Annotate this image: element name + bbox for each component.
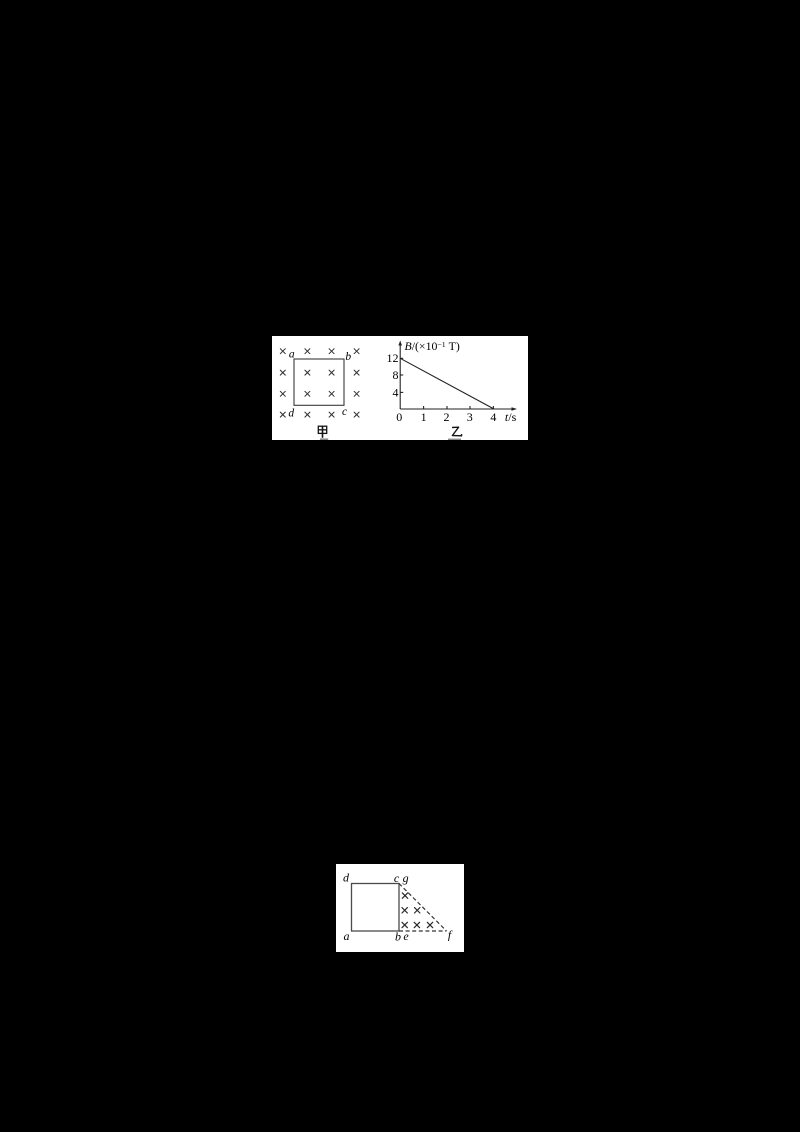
svg-text:b: b <box>395 929 401 943</box>
square loop abcd <box>352 884 400 932</box>
field crosses in triangle <box>402 893 433 928</box>
svg-text:0: 0 <box>396 410 402 424</box>
cut-off mark under 乙 <box>448 438 461 440</box>
x tick 3 <box>469 406 471 409</box>
caption 甲 (drawn) <box>318 426 326 438</box>
caption 乙 (drawn) <box>452 427 462 436</box>
svg-text:4: 4 <box>490 410 496 424</box>
svg-text:c: c <box>342 406 347 418</box>
svg-text:c: c <box>394 871 400 885</box>
x tick 2 <box>446 406 448 409</box>
svg-text:t/s: t/s <box>505 410 517 424</box>
y tick 12 <box>400 357 403 359</box>
field crosses grid 4x4 (甲 region) <box>280 349 359 417</box>
figure panel 2: square adcb with dashed triangle gef field region <box>336 864 464 952</box>
svg-text:3: 3 <box>467 410 473 424</box>
y tick 4 <box>400 391 403 393</box>
svg-text:8: 8 <box>393 368 399 382</box>
svg-text:f: f <box>448 927 453 941</box>
svg-text:12: 12 <box>387 351 399 365</box>
svg-text:a: a <box>344 929 350 943</box>
svg-text:B/(×10−1 T): B/(×10−1 T) <box>405 339 460 353</box>
figure panel 1: loop in field (甲) and B-t graph (乙) <box>272 336 528 440</box>
cut-off mark under 甲 <box>320 438 328 440</box>
dashed base e to f <box>399 930 447 932</box>
svg-text:a: a <box>289 349 295 361</box>
svg-text:d: d <box>343 871 350 885</box>
B axis (vertical) with arrow <box>398 341 402 410</box>
B(t) line from (0,12) to (4,0) <box>400 358 494 409</box>
dashed hypotenuse g to f <box>399 884 447 932</box>
svg-text:g: g <box>403 871 409 885</box>
conducting loop abcd <box>294 359 344 405</box>
x tick 4 <box>492 406 494 409</box>
t axis (horizontal) with arrow <box>400 407 517 411</box>
svg-text:d: d <box>288 407 294 419</box>
svg-text:2: 2 <box>444 410 450 424</box>
svg-text:1: 1 <box>421 410 427 424</box>
svg-text:b: b <box>345 351 351 363</box>
svg-text:e: e <box>403 929 409 943</box>
svg-text:4: 4 <box>393 385 399 399</box>
x tick 1 <box>423 406 425 409</box>
y tick 8 <box>400 374 403 376</box>
